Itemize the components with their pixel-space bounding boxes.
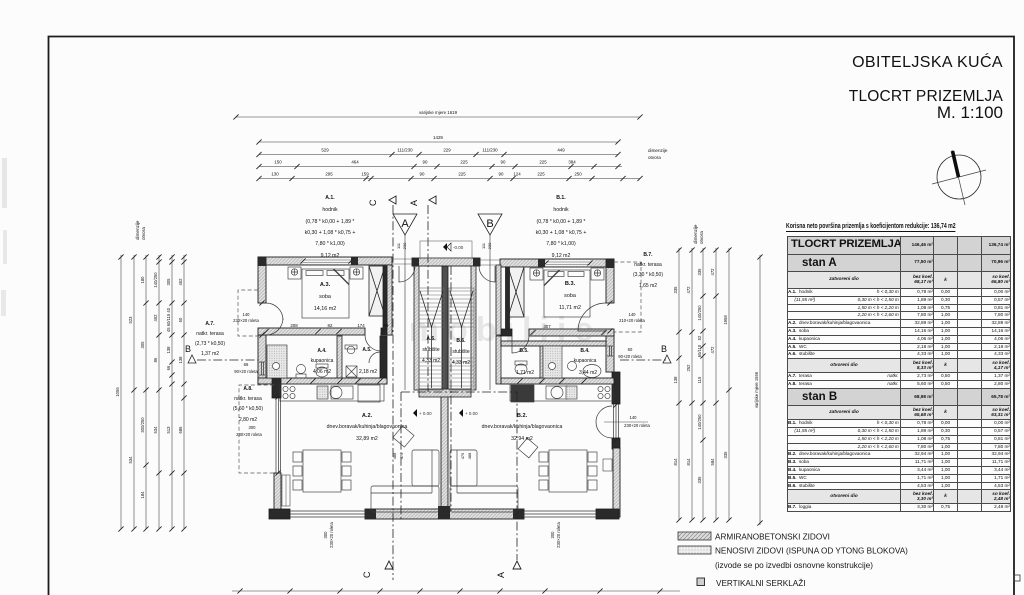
bathroom A internal wall A4/A5	[337, 336, 342, 384]
sink WC A	[347, 346, 355, 354]
serklaz bottom wall center	[438, 506, 450, 519]
living rotated dim labels	[392, 452, 472, 459]
right wall step block	[612, 372, 620, 404]
svg-text:hodnik: hodnik	[553, 207, 569, 213]
hallway B lower wall	[496, 336, 501, 384]
bottom wall left corner	[269, 509, 290, 519]
svg-text:140: 140	[630, 415, 638, 420]
svg-text:B: B	[486, 218, 493, 230]
svg-text:14,16 m2: 14,16 m2	[314, 306, 336, 312]
svg-text:452: 452	[153, 314, 158, 322]
svg-text:111: 111	[481, 242, 486, 249]
bathroom A bottom wall	[258, 378, 387, 384]
bed A	[302, 269, 349, 318]
svg-text:90: 90	[423, 160, 428, 165]
svg-text:C: C	[362, 571, 372, 578]
label C with arrow bottom	[362, 561, 521, 578]
section A line lower	[516, 392, 518, 560]
svg-text:4,33 m2: 4,33 m2	[422, 358, 440, 364]
nightstand A left	[288, 267, 301, 279]
svg-text:1,37 m2: 1,37 m2	[201, 351, 219, 357]
section line stair axis	[450, 266, 452, 511]
svg-text:dimenzije: dimenzije	[135, 220, 140, 240]
svg-text:natkr. terasa: natkr. terasa	[196, 331, 224, 337]
roleta rotated labels bottom	[323, 521, 561, 547]
svg-text:stubište: stubište	[452, 349, 469, 355]
svg-text:(5,60 * k0,50): (5,60 * k0,50)	[233, 406, 263, 412]
svg-text:230×20 roleta: 230×20 roleta	[329, 521, 334, 547]
svg-text:A: A	[496, 572, 506, 578]
svg-text:90×20 roleta: 90×20 roleta	[234, 369, 258, 374]
svg-text:32,94 m2: 32,94 m2	[511, 436, 533, 442]
svg-text:225: 225	[460, 160, 468, 165]
sofa B	[450, 486, 518, 512]
svg-text:472: 472	[686, 286, 691, 294]
svg-text:A.7.: A.7.	[205, 321, 215, 327]
svg-text:B.5.: B.5.	[519, 348, 529, 354]
svg-text:1,71 m2: 1,71 m2	[516, 370, 534, 376]
washbasin B	[568, 362, 577, 371]
toilet A	[316, 367, 328, 377]
svg-text:475: 475	[399, 452, 404, 459]
svg-text:50: 50	[178, 317, 183, 322]
shower A	[267, 345, 287, 378]
serklaz bottom wall right	[513, 509, 524, 519]
svg-text:4,06 m2: 4,06 m2	[313, 369, 331, 375]
svg-text:66: 66	[244, 362, 249, 367]
A.8 terasa block	[233, 386, 263, 437]
svg-text:k0,30 + 1,08 * k0,75 +: k0,30 + 1,08 * k0,75 +	[536, 230, 587, 236]
svg-text:1056: 1056	[115, 387, 120, 397]
bottom wall window B	[524, 511, 596, 517]
svg-text:86: 86	[153, 357, 158, 362]
washing machine A	[346, 366, 357, 377]
axis B marker left line	[197, 359, 258, 361]
svg-text:2,18 m2: 2,18 m2	[359, 369, 377, 375]
wardrobe column B	[506, 267, 525, 329]
svg-text:335: 335	[673, 286, 678, 294]
svg-text:124: 124	[513, 172, 521, 177]
level marker B living	[459, 409, 478, 417]
roleta labels left	[233, 312, 259, 374]
svg-text:140/250: 140/250	[697, 305, 702, 321]
bedroom A bottom wall stub	[381, 328, 392, 335]
living A left corner block	[272, 378, 281, 398]
svg-text:soba: soba	[319, 294, 331, 300]
svg-text:52: 52	[697, 335, 702, 340]
svg-text:A: A	[401, 218, 409, 230]
loggia B.7	[614, 262, 641, 332]
svg-text:252: 252	[686, 364, 691, 372]
serklaz block top wall B mid	[538, 259, 545, 267]
svg-text:138: 138	[166, 346, 171, 354]
svg-text:475: 475	[460, 452, 465, 459]
nightstand B right	[591, 268, 604, 280]
bottom wall window A	[290, 511, 365, 517]
WC A right wall	[380, 336, 387, 384]
svg-text:82: 82	[328, 323, 333, 328]
svg-text:7,80 * k1,00): 7,80 * k1,00)	[315, 241, 345, 247]
titles top right	[0, 0, 1024, 1]
svg-text:210+20 roleta: 210+20 roleta	[619, 318, 645, 323]
svg-text:32,89 m2: 32,89 m2	[356, 436, 378, 442]
marker triangle B top	[478, 214, 502, 235]
svg-text:-0.00: -0.00	[453, 245, 464, 250]
svg-text:A.6.: A.6.	[426, 336, 436, 342]
svg-text:otvora: otvora	[699, 231, 704, 244]
svg-text:534: 534	[153, 426, 158, 434]
svg-text:305: 305	[140, 341, 145, 349]
TV table A	[393, 426, 414, 447]
svg-text:814: 814	[686, 458, 691, 466]
svg-text:7,80 * k1,00): 7,80 * k1,00)	[546, 241, 576, 247]
svg-text:686: 686	[178, 426, 183, 434]
svg-text:otvora: otvora	[648, 155, 661, 160]
right living wall block	[612, 438, 620, 449]
entrance door unit B	[479, 266, 495, 282]
svg-text:225: 225	[458, 172, 466, 177]
toilet B5	[515, 364, 527, 374]
svg-text:584: 584	[710, 458, 715, 466]
svg-text:529: 529	[321, 148, 329, 153]
svg-text:335: 335	[697, 268, 702, 276]
svg-text:60: 60	[628, 347, 633, 352]
svg-text:300: 300	[249, 425, 257, 430]
svg-text:B.1.: B.1.	[556, 195, 566, 201]
svg-text:111: 111	[396, 242, 401, 249]
svg-text:A.4.: A.4.	[317, 348, 327, 354]
svg-text:B.2.: B.2.	[517, 413, 528, 419]
wall dim labels A bedroom	[263, 329, 606, 335]
window band top wall B	[546, 260, 590, 266]
svg-text:295: 295	[325, 172, 333, 177]
entrance door unit A	[399, 266, 415, 282]
scan speckles left edge	[0, 140, 20, 360]
serklaz block top A corner	[258, 257, 266, 266]
svg-text:B.3.: B.3.	[565, 281, 576, 287]
svg-text:225: 225	[537, 172, 545, 177]
svg-text:523: 523	[128, 316, 133, 324]
svg-text:472: 472	[710, 346, 715, 354]
compass	[920, 140, 1010, 220]
svg-text:A.8.: A.8.	[243, 386, 253, 392]
svg-text:varijske mjere 1556: varijske mjere 1556	[754, 371, 759, 408]
bedroom A bottom wall	[258, 328, 365, 335]
entrance canopy outline	[420, 241, 472, 258]
svg-text:B.6.: B.6.	[456, 338, 466, 344]
svg-text:534: 534	[128, 456, 133, 464]
legend box nenosivi	[678, 546, 711, 554]
stair direction arrows A	[420, 291, 473, 388]
dim line varijske mjere 1619	[236, 116, 640, 118]
B.1 hodnik block	[536, 195, 587, 259]
svg-text:250: 250	[574, 172, 582, 177]
bathroom B top wall	[501, 341, 606, 346]
left exterior wall lower	[258, 335, 266, 384]
right exterior wall upper	[606, 259, 614, 303]
svg-text:230×20 roleta: 230×20 roleta	[556, 521, 561, 547]
svg-text:90: 90	[499, 172, 504, 177]
party wall center lower	[441, 396, 448, 511]
label B marker right	[661, 344, 671, 363]
radiator B	[603, 459, 612, 471]
svg-text:111/230: 111/230	[482, 148, 498, 153]
top wall stair block	[412, 258, 480, 266]
stairwell A treads	[419, 288, 444, 390]
dining table A	[303, 450, 341, 492]
balcony door bedroom B	[578, 303, 606, 331]
kitchen counter A	[280, 384, 384, 401]
svg-text:300/250: 300/250	[140, 417, 145, 433]
wardrobe column A	[369, 266, 387, 329]
roleta labels right	[618, 312, 650, 428]
door threshold lines top porch A	[392, 259, 412, 264]
A.1 hodnik block	[305, 195, 356, 259]
svg-text:140: 140	[243, 312, 251, 317]
serklaz stair top right	[473, 258, 480, 266]
left wall window 66	[259, 362, 265, 375]
serklaz block top B corner	[606, 259, 614, 268]
svg-text:A: A	[409, 200, 419, 206]
dining table B	[549, 450, 587, 492]
svg-text:3,44 m2: 3,44 m2	[579, 370, 597, 376]
sofa A	[371, 486, 439, 512]
party wall center upper	[442, 266, 448, 396]
kitchen counter B	[510, 384, 613, 401]
dim line row3	[259, 154, 618, 156]
svg-text:230: 230	[487, 242, 492, 249]
svg-text:452: 452	[178, 278, 183, 286]
svg-text:1429: 1429	[433, 135, 443, 140]
svg-text:(3,30 * k0,50): (3,30 * k0,50)	[633, 272, 663, 278]
svg-text:300: 300	[323, 531, 328, 539]
section A jog	[401, 391, 517, 393]
hallway A left wall	[387, 265, 392, 335]
label B marker left	[185, 344, 196, 363]
svg-text:230+20 roleta: 230+20 roleta	[624, 423, 650, 428]
right living window frame	[614, 404, 619, 440]
window band top wall A	[303, 258, 351, 264]
svg-text:60/110: 60/110	[697, 344, 702, 357]
svg-text:90: 90	[420, 172, 425, 177]
chairs B	[539, 452, 548, 462]
washbasin A	[297, 365, 306, 374]
svg-text:66: 66	[166, 365, 171, 370]
terrace door living B double	[596, 406, 612, 422]
stair block bottom wall	[419, 389, 471, 397]
svg-text:384: 384	[568, 160, 576, 165]
svg-text:A.1.: A.1.	[325, 195, 335, 201]
serklaz stair top left	[412, 258, 419, 266]
svg-text:stubište: stubište	[422, 347, 439, 353]
left exterior wall upper	[258, 257, 266, 303]
door bedroom A	[365, 335, 381, 351]
axis B marker right line	[620, 359, 668, 361]
table caption	[786, 221, 956, 232]
dim line 1429	[259, 141, 618, 143]
axis line triangle B	[489, 235, 491, 390]
svg-text:140: 140	[629, 312, 637, 317]
svg-text:449: 449	[557, 148, 565, 153]
svg-text:otvora: otvora	[141, 227, 146, 240]
bedroom B bottom wall stub	[500, 329, 512, 336]
svg-text:9,12 m2: 9,12 m2	[552, 253, 571, 259]
svg-text:B: B	[661, 344, 667, 354]
terrace A.7	[238, 290, 258, 336]
section A line upper	[427, 205, 429, 392]
svg-text:dnev.boravak/kuhinja/blagovaon: dnev.boravak/kuhinja/blagovaonica	[482, 424, 563, 430]
B.7 terasa block	[633, 252, 663, 289]
dim line row4	[259, 166, 622, 168]
stairwell B treads	[449, 288, 474, 390]
nightstand B left	[530, 268, 543, 280]
svg-text:488: 488	[467, 452, 472, 459]
svg-text:(0,78 * k0,00 + 1,89 *: (0,78 * k0,00 + 1,89 *	[537, 219, 586, 225]
door threshold lines top porch B	[480, 260, 500, 265]
svg-text:229: 229	[443, 148, 451, 153]
label C with arrow top	[368, 196, 436, 206]
right exterior wall mid	[606, 331, 614, 372]
svg-text:B.4.: B.4.	[580, 348, 590, 354]
door dim rotated 111/230	[396, 242, 492, 249]
svg-text:(0,78 * k0,00 + 1,89 *: (0,78 * k0,00 + 1,89 *	[306, 219, 355, 225]
svg-text:307: 307	[543, 324, 551, 329]
top wall unit B	[500, 259, 614, 267]
svg-text:472: 472	[710, 268, 715, 276]
right wall window 60	[607, 346, 613, 356]
svg-text:B.7.: B.7.	[643, 252, 653, 258]
svg-text:230×20 roleta: 230×20 roleta	[233, 318, 259, 323]
bathtub B	[583, 365, 601, 378]
svg-text:A.5.: A.5.	[362, 347, 372, 353]
svg-text:4,33 m2: 4,33 m2	[452, 360, 470, 366]
svg-text:9,12 m2: 9,12 m2	[321, 253, 340, 259]
legend bottom right	[670, 525, 1024, 595]
svg-text:184: 184	[140, 491, 145, 499]
living A left wall bottom	[274, 473, 281, 517]
svg-text:180: 180	[140, 276, 145, 284]
terrace A.8	[239, 385, 274, 473]
hallway B right wall	[496, 265, 501, 335]
bed B	[544, 270, 590, 317]
svg-text:kupaonica: kupaonica	[574, 358, 597, 364]
svg-text:dimenzije: dimenzije	[693, 224, 698, 244]
svg-text:159: 159	[361, 172, 369, 177]
svg-text:soba: soba	[564, 293, 576, 299]
svg-text:115: 115	[697, 376, 702, 383]
svg-text:+ 0.00: + 0.00	[419, 411, 432, 416]
level marker A living	[413, 409, 432, 417]
legend box armiranobetonski	[678, 532, 711, 540]
right living room wall	[613, 448, 620, 517]
svg-text:814: 814	[673, 458, 678, 466]
svg-text:140/250: 140/250	[153, 272, 158, 288]
legend box serklazi	[697, 578, 705, 586]
svg-text:natkr. terasa: natkr. terasa	[634, 262, 662, 268]
svg-text:305: 305	[166, 278, 171, 286]
svg-text:(2,73 * k0,50): (2,73 * k0,50)	[195, 341, 225, 347]
svg-text:45 60/115 40: 45 60/115 40	[166, 307, 171, 332]
svg-text:208: 208	[290, 323, 298, 328]
svg-text:hodnik: hodnik	[322, 207, 338, 213]
area table	[787, 236, 1011, 512]
svg-text:99: 99	[384, 323, 389, 328]
svg-text:+ 0.00: + 0.00	[465, 411, 478, 416]
svg-text:1,65 m2: 1,65 m2	[639, 283, 657, 289]
stair B right wall	[471, 266, 476, 390]
svg-text:C: C	[368, 199, 378, 206]
svg-text:130: 130	[271, 172, 279, 177]
svg-text:dimenzije: dimenzije	[648, 148, 668, 153]
svg-text:335: 335	[697, 476, 702, 484]
chairs A	[293, 452, 302, 462]
svg-text:513: 513	[166, 426, 171, 434]
bedroom B bottom wall	[529, 329, 614, 336]
A.7 terasa block	[195, 321, 225, 357]
TV table B	[518, 438, 538, 458]
axis line triangle A	[404, 235, 406, 390]
svg-text:300: 300	[550, 531, 555, 539]
dim line row5	[259, 178, 640, 180]
svg-text:174: 174	[357, 323, 365, 328]
svg-text:2,80 m2: 2,80 m2	[239, 417, 257, 423]
svg-text:138: 138	[178, 356, 183, 364]
svg-text:90+20 roleta: 90+20 roleta	[618, 354, 642, 359]
svg-text:111/230: 111/230	[397, 148, 413, 153]
svg-text:90: 90	[501, 160, 506, 165]
serklaz block top wall A mid	[351, 257, 358, 265]
section C line	[392, 205, 394, 580]
door bedroom B	[512, 336, 529, 353]
svg-text:dnev.boravak/kuhinja/blagovaon: dnev.boravak/kuhinja/blagovaonica	[327, 424, 408, 430]
bathroom B bottom wall	[501, 378, 614, 384]
svg-text:k0,30 + 1,08 * k0,75 +: k0,30 + 1,08 * k0,75 +	[305, 230, 356, 236]
svg-text:A.2.: A.2.	[362, 413, 373, 419]
svg-text:11,71 m2: 11,71 m2	[559, 305, 581, 311]
svg-text:140/250: 140/250	[697, 414, 702, 430]
nightstand A right	[350, 267, 363, 279]
svg-text:natkr. terasa: natkr. terasa	[234, 396, 262, 402]
svg-text:225: 225	[539, 160, 547, 165]
shower B	[543, 346, 562, 378]
svg-text:464: 464	[351, 160, 359, 165]
marker triangle A top	[393, 214, 417, 235]
bathroom B internal wall	[540, 341, 543, 384]
svg-text:1958: 1958	[723, 315, 728, 325]
svg-text:230: 230	[402, 242, 407, 249]
svg-text:varijske mjere 1619: varijske mjere 1619	[419, 110, 458, 115]
hallway A / stair wall	[414, 266, 419, 390]
bottom wall center hatched	[365, 509, 524, 519]
top wall unit A	[258, 257, 392, 265]
living A sliding door	[276, 398, 281, 473]
svg-text:A.3.: A.3.	[320, 282, 331, 288]
svg-text:230×20 roleta: 230×20 roleta	[236, 432, 262, 437]
svg-text:kupaonica: kupaonica	[311, 358, 334, 364]
door bathroom B	[546, 352, 556, 362]
svg-text:B: B	[185, 344, 191, 354]
axis line living A	[400, 392, 402, 520]
wall dimension ticks texture	[259, 258, 618, 475]
svg-text:488: 488	[392, 452, 397, 459]
svg-text:150: 150	[274, 160, 282, 165]
serklaz bottom wall left	[365, 509, 376, 519]
level marker top	[443, 243, 464, 251]
bottom wall right corner	[596, 509, 619, 519]
door WC A	[369, 352, 380, 363]
svg-text:138: 138	[673, 376, 678, 384]
radiator A living	[282, 475, 290, 506]
